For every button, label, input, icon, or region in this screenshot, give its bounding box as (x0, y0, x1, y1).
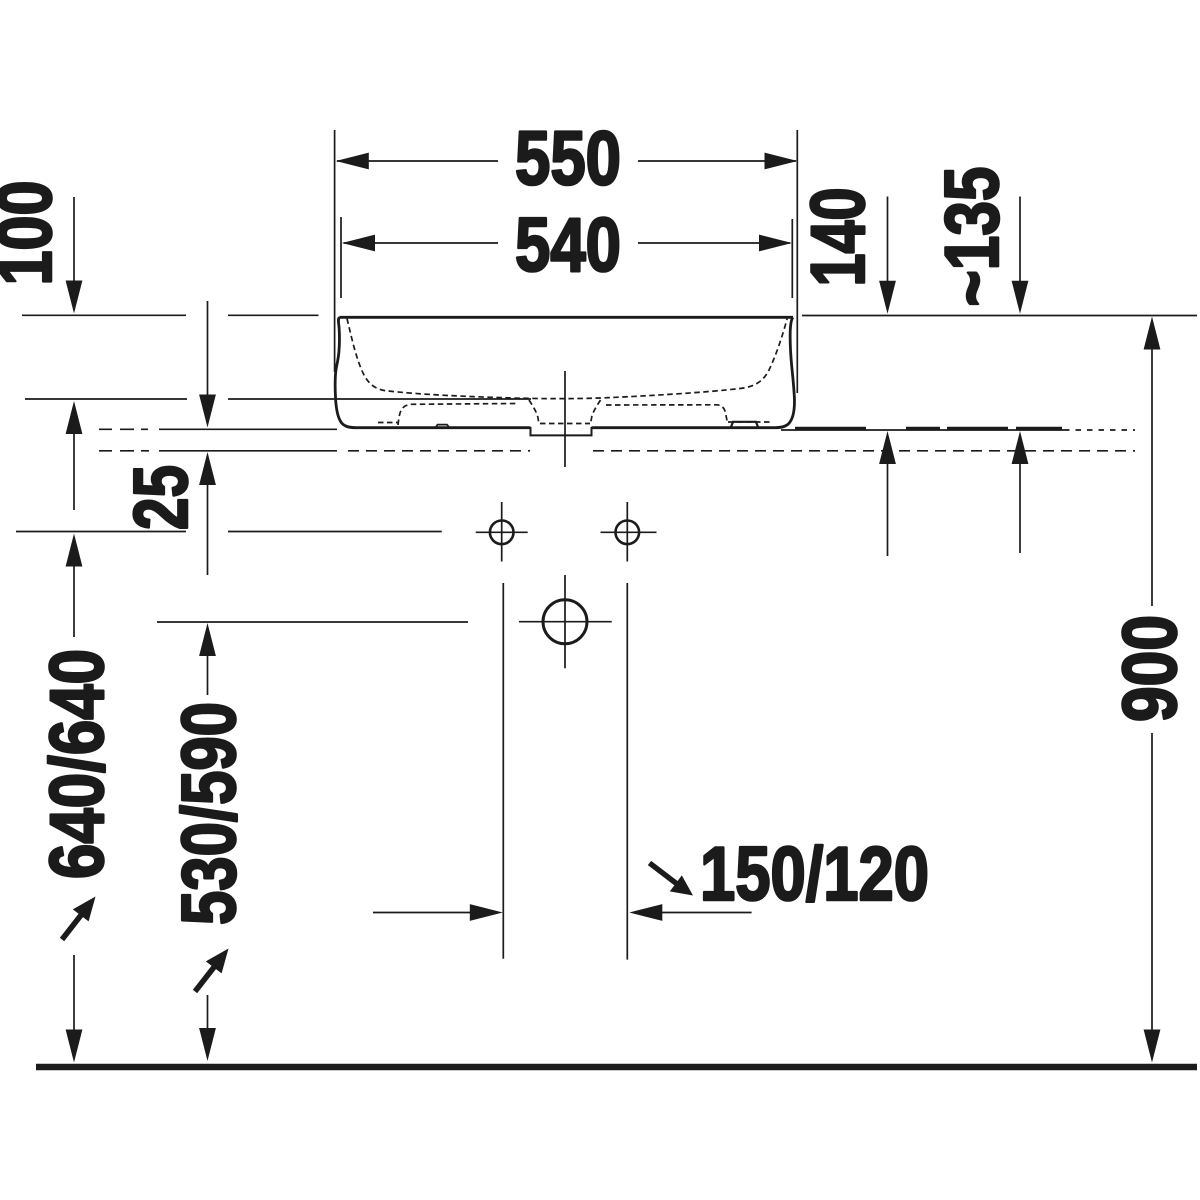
faucet hole left crosshair (476, 502, 528, 562)
dimension line 100 lower (73, 433, 75, 510)
countertop cutout heavy dash 3 (947, 427, 1008, 430)
svg-text:~135: ~135 (930, 167, 1015, 307)
countertop top line left solid (159, 428, 337, 430)
dimension line 140 lower (887, 463, 889, 556)
countertop top line right dashes (1064, 429, 1135, 431)
arrowhead 150 right (470, 904, 503, 921)
floor edge right hidden line (728, 421, 770, 423)
extension line 540 right (791, 219, 793, 298)
oblique arrow 150/120 (650, 863, 694, 896)
countertop cutout heavy dash 1 (795, 427, 866, 430)
dimension line 140 upper (887, 197, 889, 283)
countertop cutout heavy dash 2 (906, 427, 940, 430)
arrowhead 530 up (199, 623, 216, 656)
dimension line 640 shaft lower (73, 955, 75, 1031)
dimension line 530 shaft lower (207, 995, 209, 1030)
countertop bottom line right dashes (593, 450, 1135, 452)
dimension line 25 lower (207, 484, 209, 575)
countertop cutout heavy dash 4 (1016, 427, 1062, 430)
basin right wall and bottom (592, 317, 795, 427)
arrowhead 540 right (759, 235, 792, 252)
rim level line left (22, 314, 319, 316)
arrowhead 25 down (199, 395, 216, 428)
faucet hole left circle (490, 521, 514, 545)
arrowhead 100 up (66, 401, 83, 434)
drain circle (543, 600, 587, 644)
arrowhead 640 down (66, 1030, 83, 1063)
arrowhead 140 up (879, 431, 896, 464)
arrowhead 640 up (66, 534, 83, 567)
basin centerline (564, 371, 566, 467)
dimension line 550 (337, 160, 796, 162)
faucet hole right crosshair (601, 502, 657, 562)
drain throat bottom hidden line (540, 423, 590, 425)
dimension line 640 (16, 531, 442, 533)
basin rim line (339, 316, 793, 319)
dimension line 150 left (373, 912, 470, 914)
arrowhead 540 left (342, 235, 375, 252)
faucet hole left extension line (502, 583, 504, 959)
faucet hole right circle (616, 521, 640, 545)
arrowhead 900 up (1144, 317, 1161, 350)
arrowhead ~135 down (1012, 281, 1029, 314)
oblique arrow 640 (62, 897, 96, 940)
rim level line right (802, 315, 1197, 317)
arrowhead 900 down (1144, 1030, 1161, 1063)
dimension line 530 shaft upper (207, 655, 209, 695)
foot pad right hidden line (606, 405, 728, 423)
dimension line ~135 lower (1019, 463, 1021, 553)
arrowhead 100 down (66, 281, 83, 314)
drain outlet notch (531, 427, 592, 435)
foot pad left hidden line (398, 404, 516, 426)
arrowhead 25 up (199, 452, 216, 485)
dimension line 900 upper (1151, 348, 1153, 606)
bowl depth line left (25, 398, 531, 400)
countertop bottom line left solid (159, 450, 337, 452)
drain funnel right hidden line (591, 400, 601, 424)
svg-text:900: 900 (1108, 615, 1193, 722)
floor edge left hidden line (378, 422, 399, 424)
extension line 550 left (334, 130, 336, 372)
arrowhead ~135 up (1012, 431, 1029, 464)
arrowhead 550 right (765, 153, 798, 170)
extension line 550 right (796, 130, 798, 393)
dimension line 640 shaft upper (73, 565, 75, 637)
faucet hole right extension line (626, 583, 628, 960)
svg-text:640/640: 640/640 (35, 649, 120, 879)
foot step left solid (436, 425, 449, 427)
dimension line 25 upper (207, 301, 209, 395)
arrowhead 150 left (629, 904, 662, 921)
drain crosshair (519, 575, 612, 668)
dimension line 150 right (662, 912, 752, 914)
countertop top line right solid (781, 429, 1064, 431)
basin inner bowl hidden line (347, 319, 787, 399)
extension line 540 left (340, 217, 342, 298)
basin left wall and bottom (335, 317, 530, 427)
countertop bottom line left dashes (99, 450, 149, 452)
drain funnel left hidden line (529, 400, 539, 424)
arrowhead 140 down (879, 281, 896, 314)
oblique arrow 530 (195, 949, 229, 992)
svg-text:100: 100 (0, 181, 68, 286)
svg-text:530/590: 530/590 (167, 702, 252, 925)
arrowhead 530 down (199, 1028, 216, 1061)
dimension line 900 lower (1151, 733, 1153, 1031)
countertop bottom line middle dashes (348, 450, 530, 452)
dimension line 100 upper (73, 197, 75, 281)
svg-text:25: 25 (119, 465, 204, 530)
countertop top line left dashes (99, 428, 148, 430)
dimension line 540 (344, 242, 791, 244)
arrowhead 550 left (336, 153, 369, 170)
svg-text:550: 550 (515, 117, 621, 202)
dimension line 530 (157, 621, 468, 623)
foot step right solid (731, 422, 758, 427)
svg-text:140: 140 (796, 188, 881, 287)
svg-text:540: 540 (515, 203, 621, 288)
dimension line ~135 upper (1019, 197, 1021, 283)
floor line (36, 1064, 1197, 1071)
svg-text:150/120: 150/120 (700, 832, 929, 917)
